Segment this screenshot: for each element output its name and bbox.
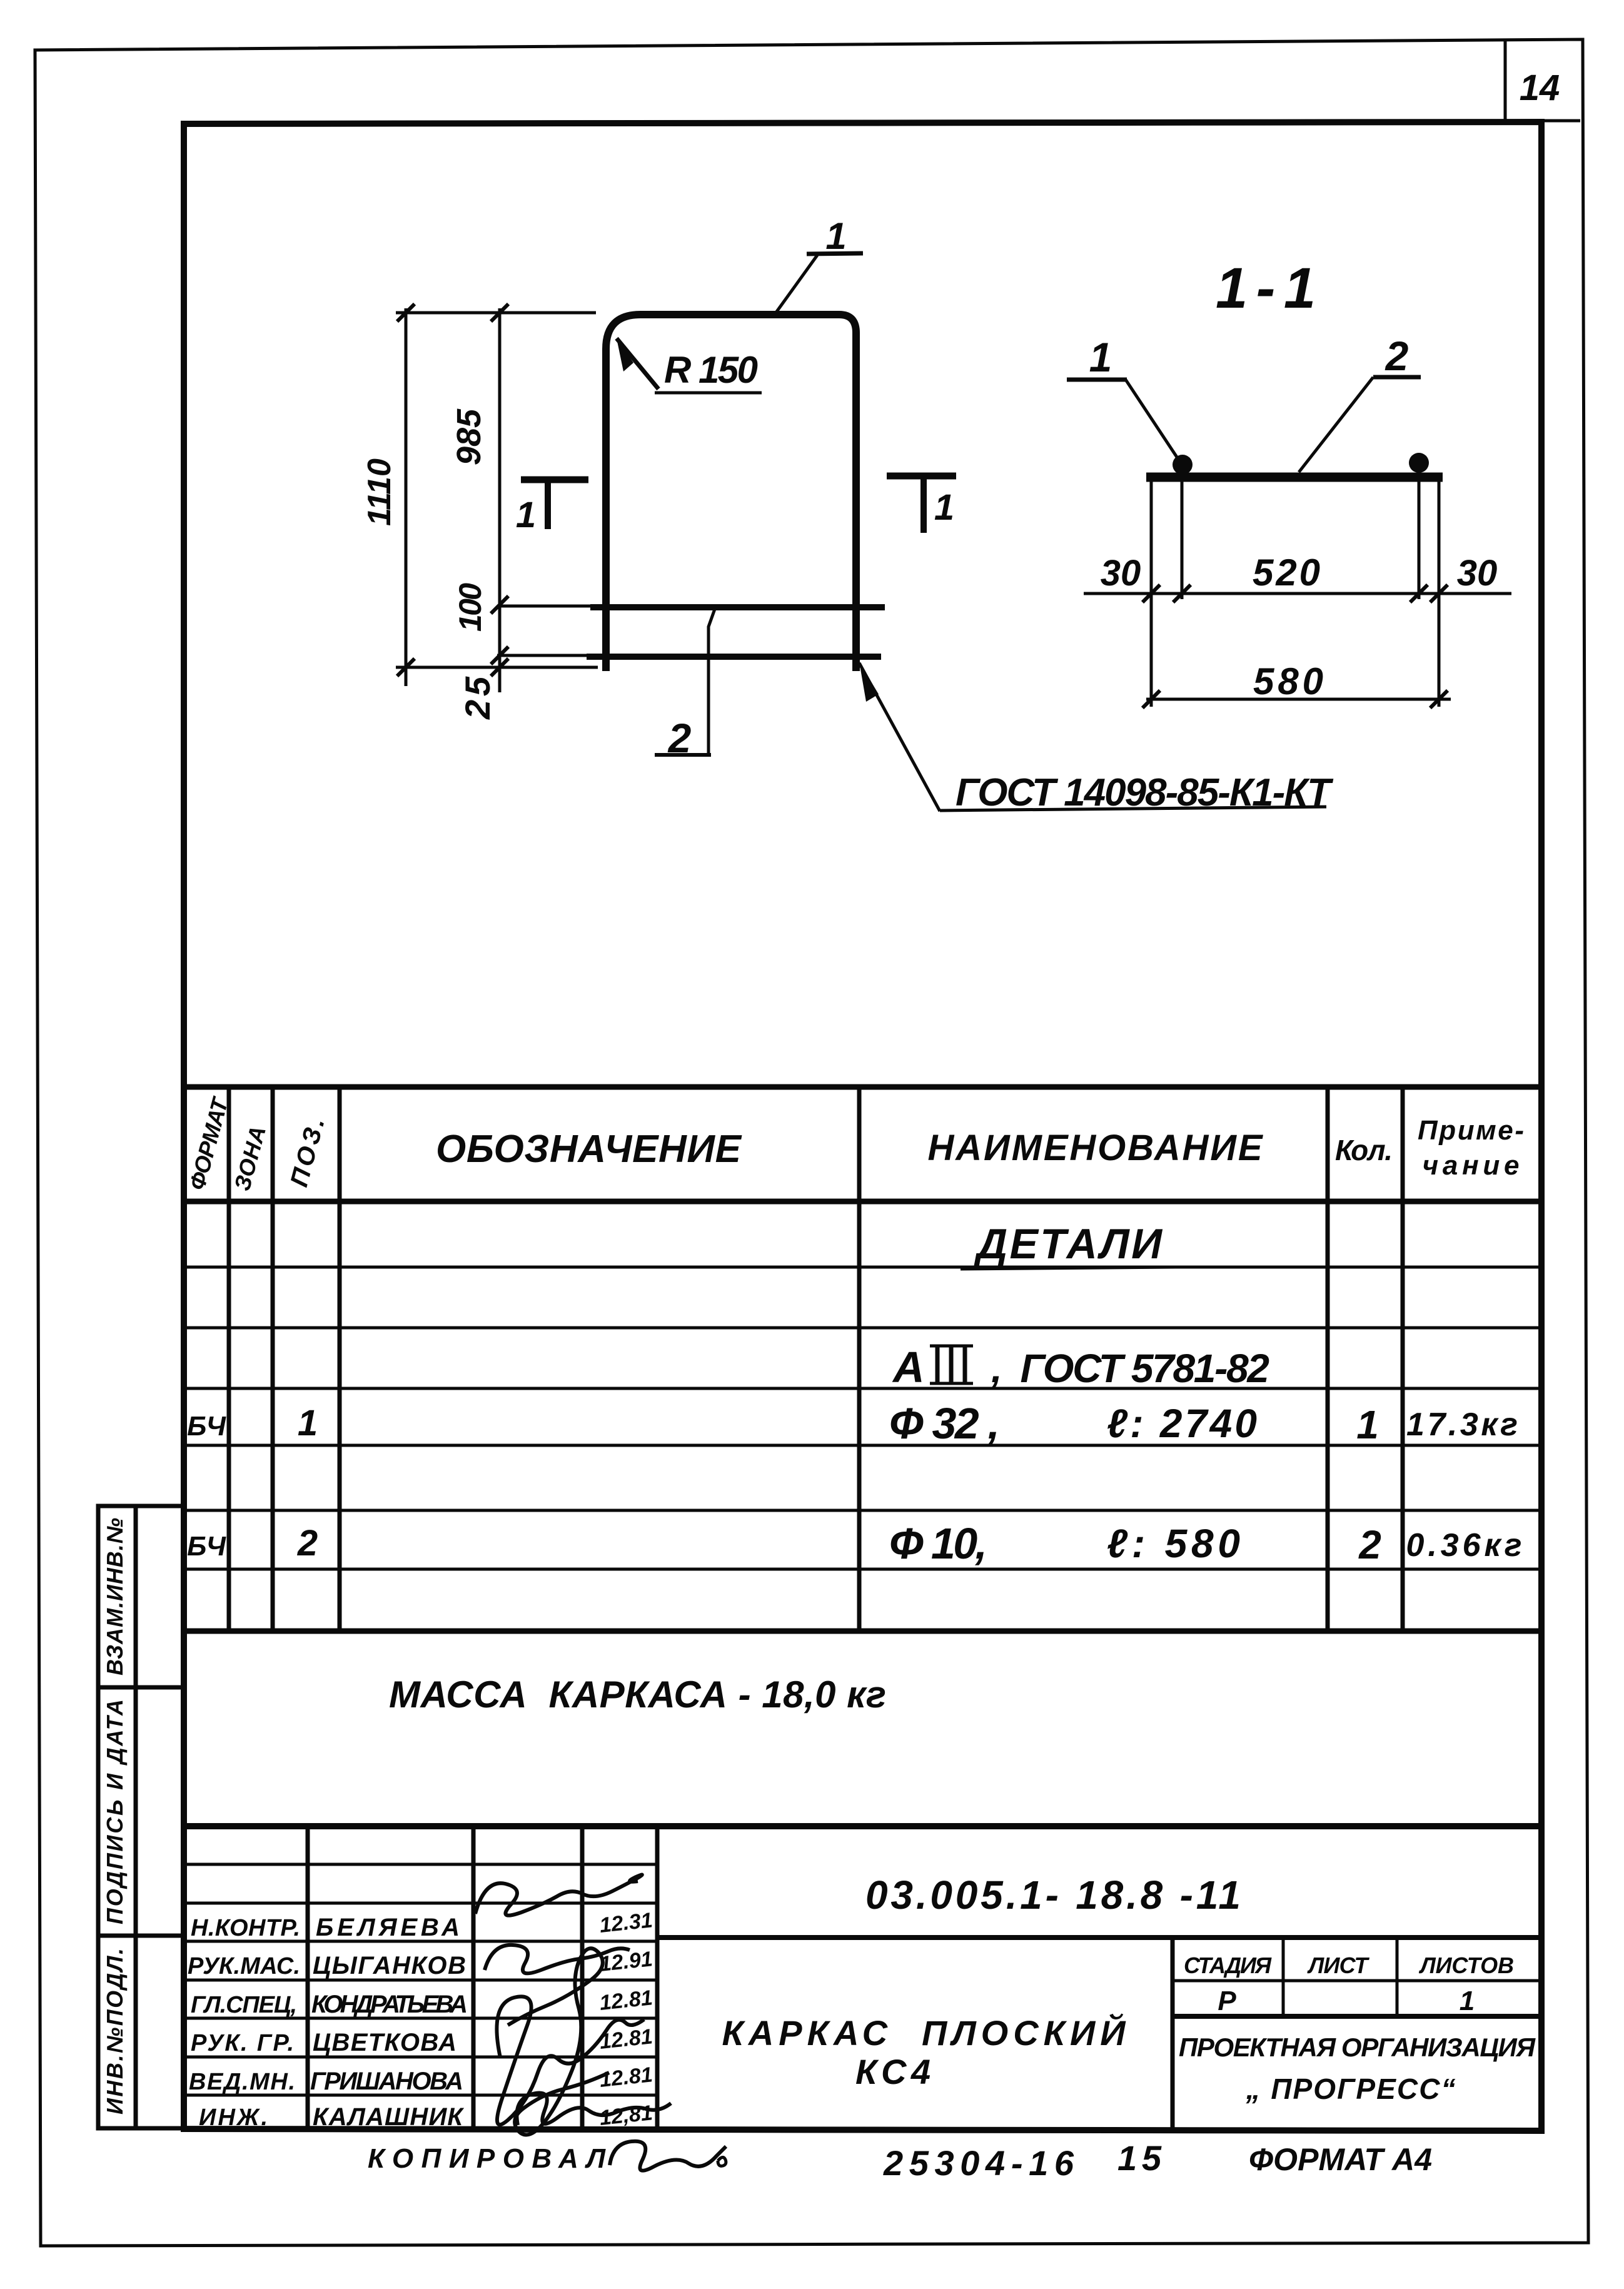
svg-text:17.3кг: 17.3кг — [1406, 1407, 1518, 1443]
svg-text:НАИМЕНОВАНИЕ: НАИМЕНОВАНИЕ — [928, 1128, 1264, 1168]
svg-text:1110: 1110 — [361, 458, 398, 526]
svg-text:1: 1 — [1356, 1402, 1379, 1447]
svg-text:30: 30 — [1457, 553, 1498, 594]
svg-text:БЧ: БЧ — [187, 1531, 226, 1562]
svg-text:2: 2 — [297, 1523, 318, 1564]
svg-text:ЦЫГАНКОВ: ЦЫГАНКОВ — [313, 1952, 466, 1979]
svg-text:ВЕД.МН.: ВЕД.МН. — [189, 2069, 295, 2095]
svg-text:Н.КОНТР.: Н.КОНТР. — [191, 1915, 300, 1941]
svg-text:580: 580 — [1253, 660, 1323, 702]
svg-text:1: 1 — [1460, 1986, 1475, 2016]
svg-text:ЛИСТОВ: ЛИСТОВ — [1418, 1953, 1514, 1978]
svg-text:Приме-: Приме- — [1418, 1115, 1524, 1146]
svg-text:2: 2 — [1358, 1522, 1381, 1567]
svg-text:520: 520 — [1253, 552, 1320, 594]
svg-text:1: 1 — [825, 215, 846, 257]
svg-text:КОПИРОВАЛ: КОПИРОВАЛ — [368, 2143, 606, 2174]
svg-text:Ф 10,: Ф 10, — [889, 1519, 987, 1568]
svg-text:ГРИШАНОВА: ГРИШАНОВА — [310, 2068, 463, 2095]
svg-text:МАССА КАРКАСА - 18,0 кг: МАССА КАРКАСА - 18,0 кг — [389, 1674, 886, 1715]
svg-text:14: 14 — [1520, 68, 1560, 108]
svg-text:КОНДРАТЬЕВА: КОНДРАТЬЕВА — [311, 1991, 468, 2018]
svg-text:Р: Р — [1218, 1986, 1236, 2016]
svg-text:2: 2 — [667, 715, 692, 761]
svg-text:100: 100 — [453, 583, 488, 632]
svg-text:1-1: 1-1 — [1216, 256, 1316, 320]
svg-text:, ГОСТ 5781-82: , ГОСТ 5781-82 — [991, 1346, 1269, 1391]
svg-text:ГЛ.СПЕЦ,: ГЛ.СПЕЦ, — [191, 1992, 297, 2018]
svg-text:ИНВ.№ПОДЛ.: ИНВ.№ПОДЛ. — [102, 1948, 128, 2115]
svg-text:ПРОЕКТНАЯ ОРГАНИЗАЦИЯ: ПРОЕКТНАЯ ОРГАНИЗАЦИЯ — [1179, 2033, 1536, 2062]
svg-text:0.36кг: 0.36кг — [1406, 1527, 1522, 1564]
svg-text:Ф 32 ,: Ф 32 , — [889, 1399, 1000, 1448]
svg-text:А: А — [892, 1343, 925, 1392]
svg-text:КС4: КС4 — [855, 2052, 931, 2091]
svg-text:Кол.: Кол. — [1335, 1134, 1393, 1166]
svg-text:ДЕТАЛИ: ДЕТАЛИ — [974, 1220, 1163, 1268]
svg-text:R 150: R 150 — [664, 349, 758, 391]
svg-text:ПОДПИСЬ И ДАТА: ПОДПИСЬ И ДАТА — [102, 1699, 128, 1924]
svg-text:25304-16: 25304-16 — [883, 2143, 1074, 2183]
svg-text:1: 1 — [1089, 334, 1112, 380]
svg-text:985: 985 — [450, 408, 488, 465]
svg-text:ВЗАМ.ИНВ.№: ВЗАМ.ИНВ.№ — [102, 1518, 128, 1675]
svg-text:„ ПРОГРЕСС“: „ ПРОГРЕСС“ — [1246, 2073, 1456, 2105]
svg-text:30: 30 — [1101, 553, 1141, 594]
svg-text:чание: чание — [1423, 1150, 1520, 1181]
svg-text:03.005.1- 18.8 -11: 03.005.1- 18.8 -11 — [865, 1872, 1241, 1918]
svg-text:СТАДИЯ: СТАДИЯ — [1184, 1953, 1272, 1978]
svg-text:ЛИСТ: ЛИСТ — [1307, 1953, 1370, 1978]
svg-text:КАЛАШНИК: КАЛАШНИК — [313, 2103, 464, 2131]
svg-text:ГОСТ 14098-85-К1-КТ: ГОСТ 14098-85-К1-КТ — [956, 771, 1334, 814]
svg-text:ИНЖ.: ИНЖ. — [199, 2105, 268, 2131]
svg-text:ФОРМАТ А4: ФОРМАТ А4 — [1249, 2142, 1432, 2177]
svg-text:1: 1 — [516, 495, 536, 535]
svg-text:ОБОЗНАЧЕНИЕ: ОБОЗНАЧЕНИЕ — [436, 1128, 742, 1171]
svg-text:РУК.МАС.: РУК.МАС. — [188, 1953, 300, 1979]
svg-text:1: 1 — [298, 1403, 318, 1443]
svg-text:БЧ: БЧ — [187, 1411, 226, 1442]
svg-text:ℓ: 580: ℓ: 580 — [1107, 1521, 1240, 1566]
svg-text:ЦВЕТКОВА: ЦВЕТКОВА — [313, 2029, 456, 2056]
svg-text:1: 1 — [934, 487, 954, 528]
svg-text:2: 2 — [1384, 333, 1409, 379]
